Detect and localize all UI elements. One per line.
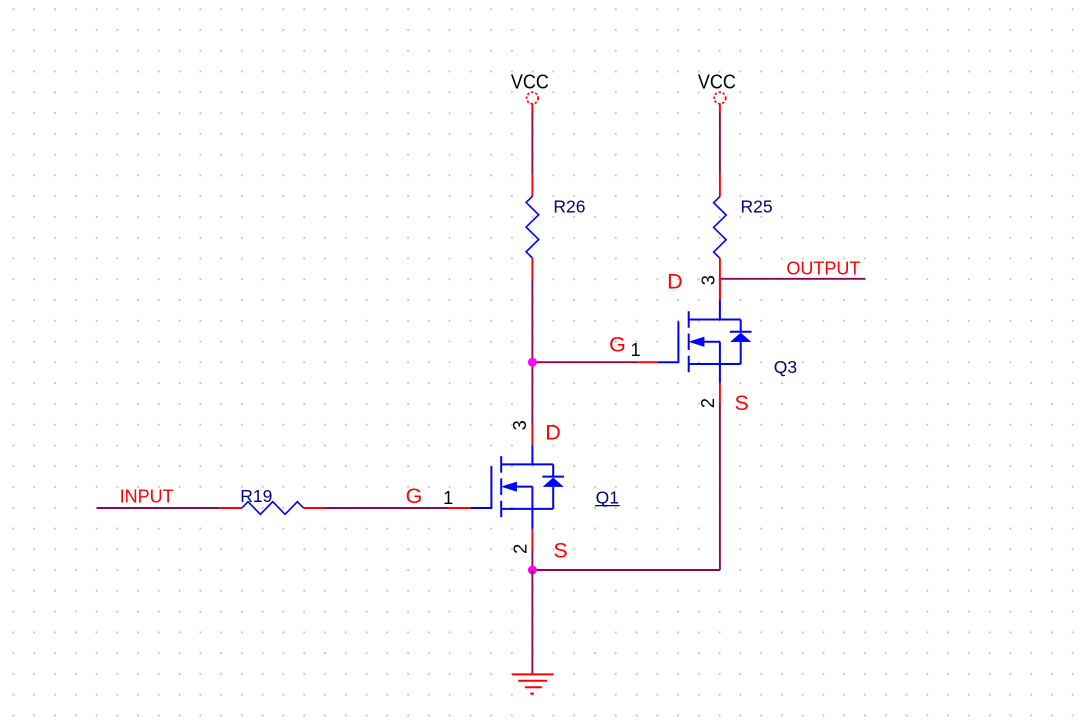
pin number 1 of Q1 [443,488,453,508]
wire node B horizontal [532,569,720,571]
svg-text:Q1: Q1 [596,488,619,508]
pin label S of Q3 [735,391,749,415]
pin number 3 of Q1 [510,420,530,430]
svg-text:3: 3 [510,420,530,430]
svg-text:2: 2 [510,544,530,554]
pin label G of Q3 [609,333,626,357]
label R25 designator [741,196,773,216]
pin number 2 of Q3 [698,398,718,408]
svg-text:INPUT: INPUT [120,487,174,507]
pin label G of Q1 [406,484,423,508]
label R19 designator [240,486,272,506]
power VCC2 (right) [698,72,736,114]
svg-text:D: D [667,270,683,294]
wire R26 to node A [531,280,533,362]
wire Q3 source to node B [719,403,721,570]
wire node A to Q3 gate [532,361,637,363]
svg-text:OUTPUT: OUTPUT [786,258,860,278]
pin label D of Q1 [545,421,561,445]
svg-text:1: 1 [630,340,640,360]
svg-text:2: 2 [698,398,718,408]
svg-text:S: S [553,539,567,563]
wire node B to ground [531,570,533,674]
svg-text:1: 1 [443,488,453,508]
svg-text:S: S [735,391,749,415]
svg-text:VCC: VCC [511,72,549,94]
svg-text:VCC: VCC [698,72,736,94]
net label INPUT [120,487,174,507]
node A junction dot [528,358,537,367]
power VCC1 (left) [511,72,549,114]
label R26 designator [553,196,585,216]
resistor R19 [220,502,326,515]
wire INPUT net [97,507,220,509]
wire node A to Q1 drain [531,362,533,425]
wire Q1 source to node B [531,549,533,570]
pin label S of Q1 [553,539,567,563]
resistor R26 [526,174,539,280]
svg-text:Q3: Q3 [774,357,797,377]
ground [512,674,553,693]
pin label D of Q3 [667,270,683,294]
svg-text:3: 3 [699,275,719,285]
wire OUTPUT net [720,278,866,280]
wire R19 to Q1 gate [326,507,448,509]
resistor R25 [714,174,727,300]
pin number 2 of Q1 [510,544,530,554]
label Q3 designator [774,357,797,377]
node B junction dot [528,566,537,575]
svg-text:D: D [545,421,561,445]
pin number 1 of Q3 [630,340,640,360]
pin number 3 of Q3 [699,275,719,285]
svg-text:R26: R26 [553,196,585,216]
svg-text:G: G [609,333,626,357]
wire VCC2 to R25 [719,113,721,174]
label Q1 designator [595,488,620,508]
transistor Q1 (NMOS with body diode) [448,425,564,549]
wire VCC1 to R26 [531,113,533,174]
svg-text:R25: R25 [741,196,773,216]
svg-text:G: G [406,484,423,508]
transistor Q3 (NMOS with body diode) [637,279,751,404]
net label OUTPUT [786,258,860,278]
svg-text:R19: R19 [240,486,272,506]
